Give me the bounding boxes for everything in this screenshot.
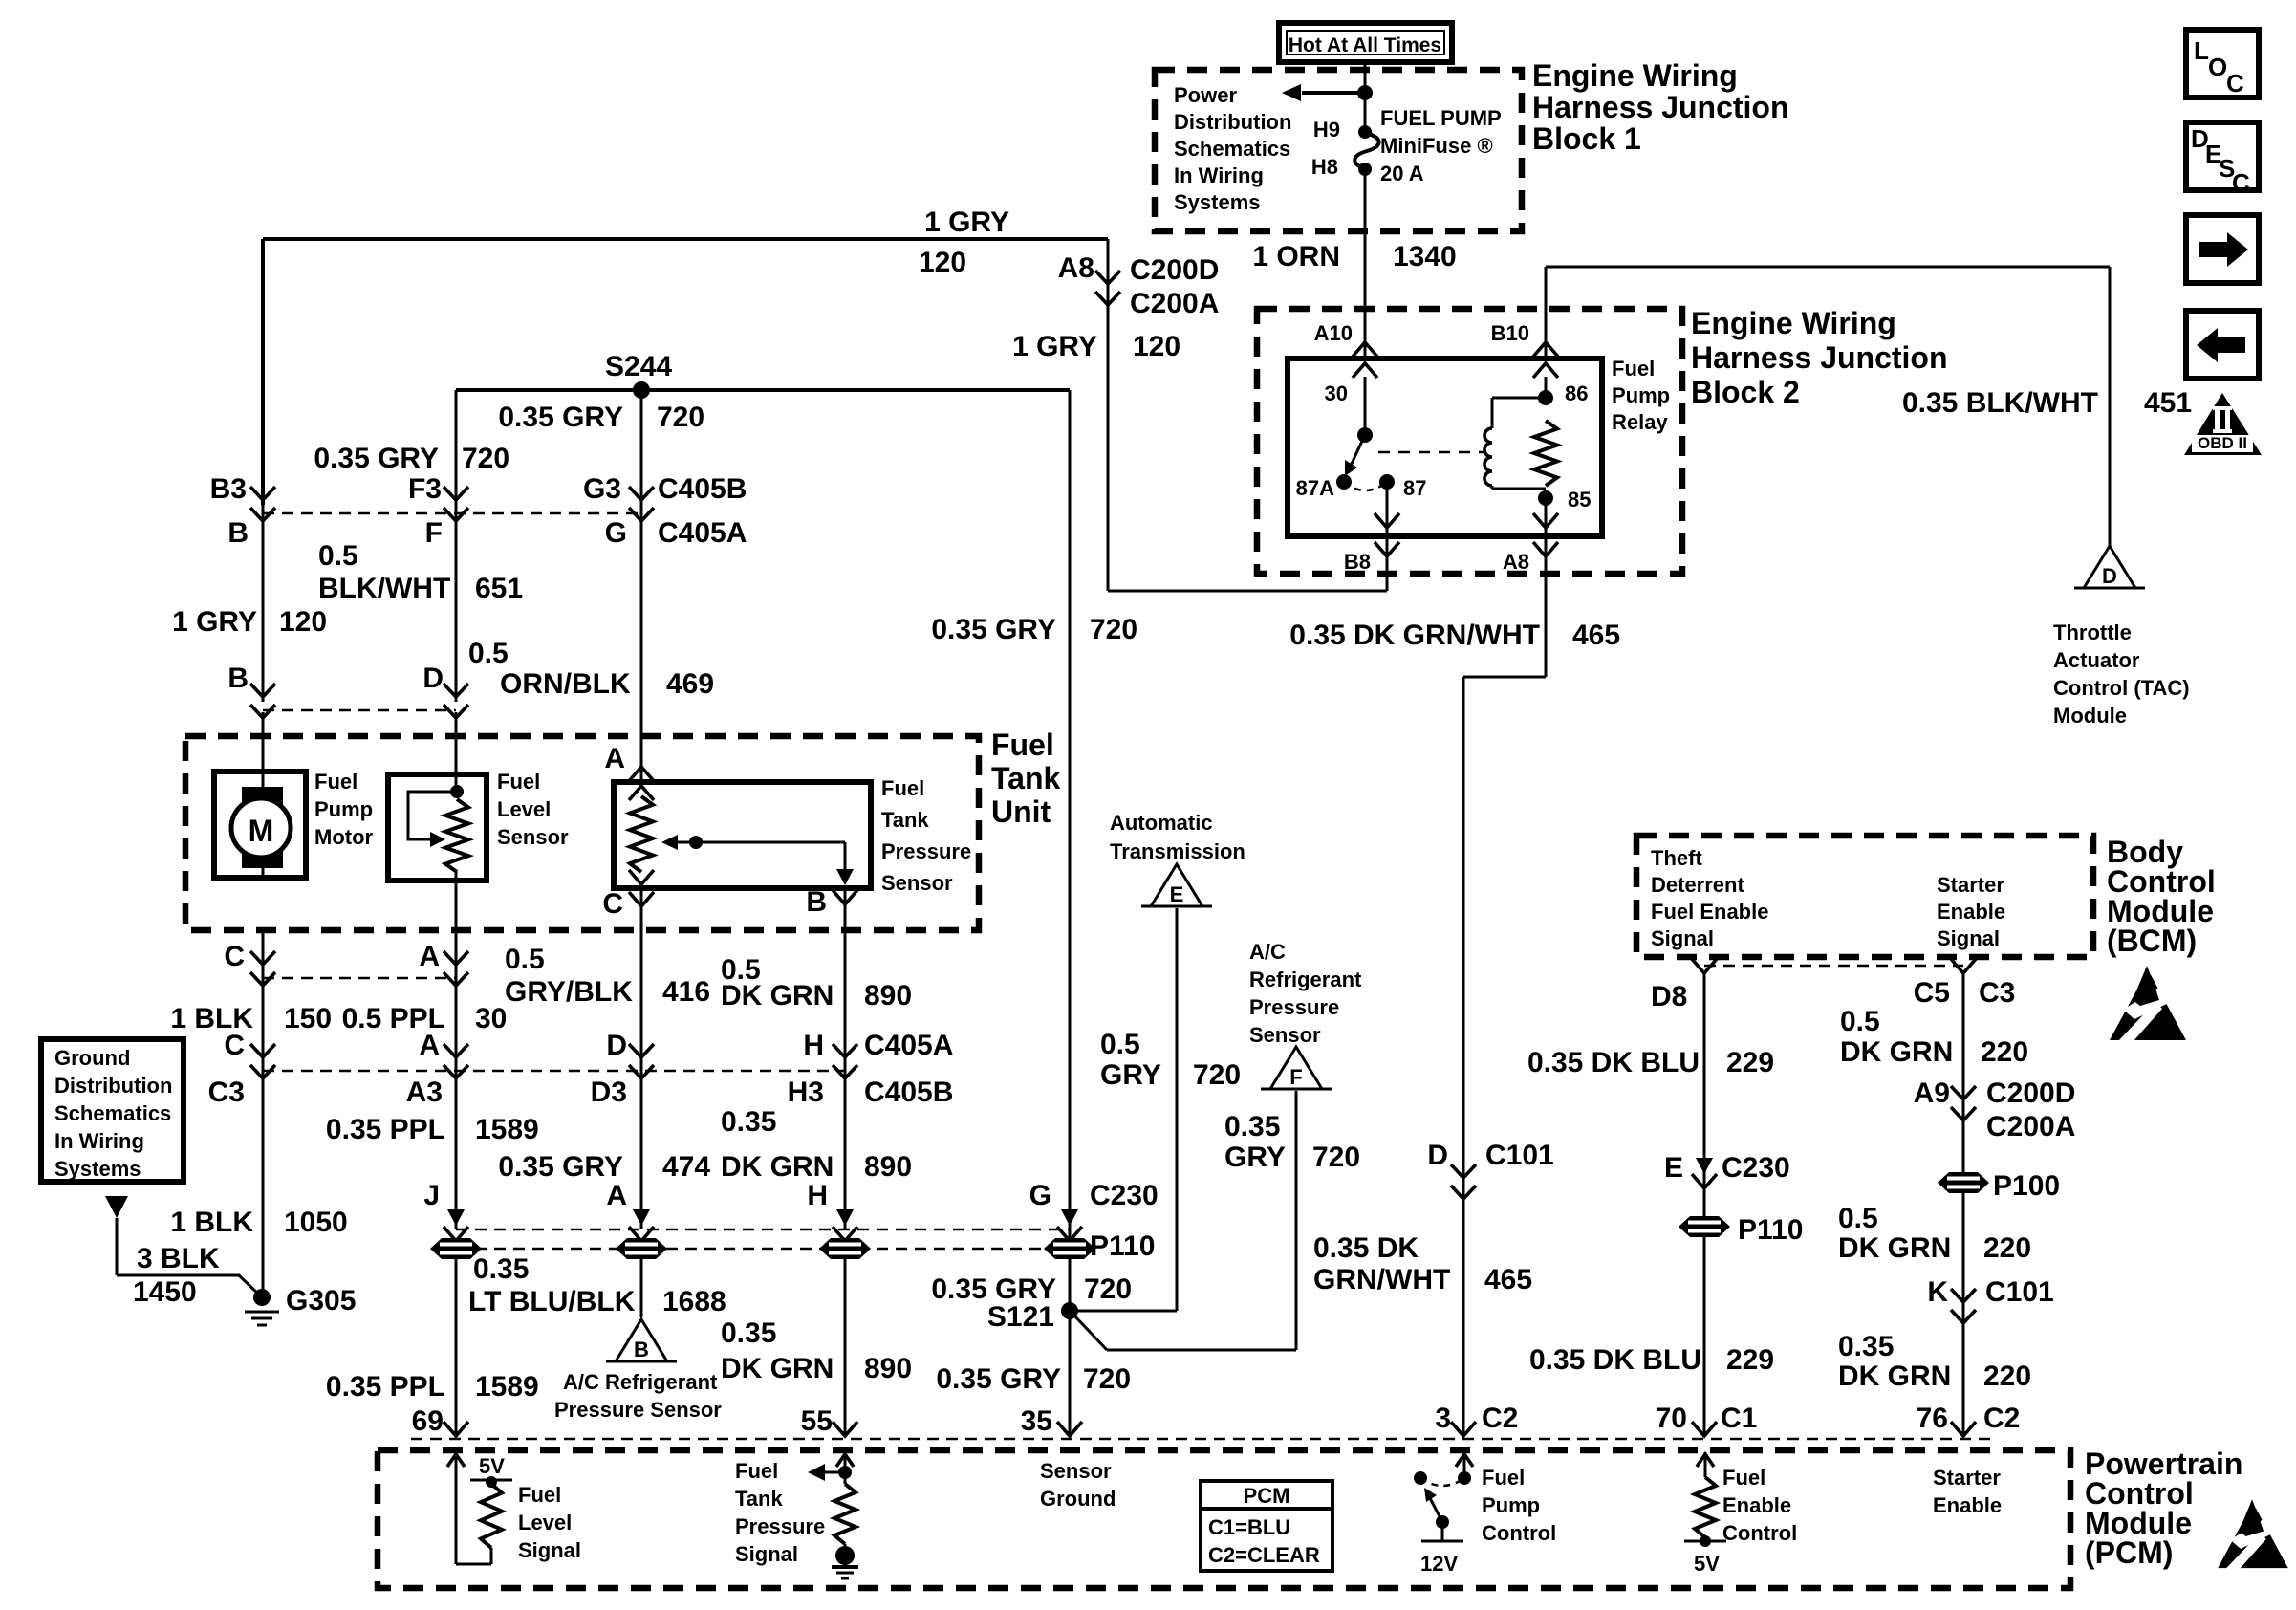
connector chevrons H row2 [833, 1044, 857, 1078]
PCM pressure input wire [844, 1452, 847, 1484]
svg-text:D3: D3 [591, 1077, 627, 1108]
svg-text:D8: D8 [1651, 981, 1687, 1012]
svg-text:A10: A10 [1314, 321, 1353, 345]
svg-text:B: B [227, 517, 249, 549]
svg-text:720: 720 [1083, 1363, 1131, 1395]
svg-text:Control: Control [1722, 1521, 1797, 1545]
svg-text:Schematics: Schematics [54, 1101, 171, 1125]
svg-text:0.5: 0.5 [1100, 1029, 1140, 1060]
svg-text:220: 220 [1983, 1360, 2031, 1392]
svg-text:1589: 1589 [475, 1371, 539, 1403]
svg-text:E: E [1170, 882, 1184, 906]
svg-text:Fuel: Fuel [735, 1459, 778, 1483]
svg-text:A8: A8 [1058, 252, 1094, 284]
svg-text:651: 651 [475, 573, 523, 604]
node - 85 junction [1538, 490, 1553, 506]
svg-text:220: 220 [1983, 1232, 2031, 1264]
svg-text:0.35 BLK/WHT: 0.35 BLK/WHT [1902, 387, 2098, 419]
wire - H column below tank [844, 930, 847, 1229]
wire - D into fuel tank unit [455, 712, 458, 779]
TAC triangle D [2084, 546, 2135, 588]
connector chevrons A row2 [444, 1044, 468, 1078]
svg-text:C2=CLEAR: C2=CLEAR [1208, 1543, 1320, 1567]
wire - 87 down to B8 [1386, 482, 1389, 516]
grommet P110 on pressure H wire [819, 1238, 871, 1259]
svg-text:C230: C230 [1722, 1152, 1790, 1184]
svg-text:P100: P100 [1993, 1170, 2060, 1202]
svg-text:Fuel: Fuel [314, 770, 357, 794]
pin B8 Y symbol [1375, 542, 1399, 556]
svg-text:F: F [425, 517, 443, 549]
wire - arrow to power distribution [1302, 91, 1365, 95]
pin B Y symbol [833, 890, 857, 904]
icon OBD II triangle [2184, 393, 2262, 455]
svg-text:Control: Control [1482, 1521, 1556, 1545]
pressure sensor wiper [671, 841, 845, 844]
PCM dashed box [378, 1450, 2070, 1588]
svg-text:H8: H8 [1311, 155, 1338, 179]
PCM 12V bar [1441, 1522, 1444, 1541]
svg-text:Sensor: Sensor [1249, 1023, 1321, 1047]
svg-text:G3: G3 [583, 473, 621, 505]
svg-text:0.5: 0.5 [1840, 1006, 1880, 1037]
wire - S244 horizontal [456, 388, 1070, 392]
connector chevrons D row2 [629, 1044, 654, 1078]
svg-text:Theft: Theft [1651, 846, 1702, 870]
svg-text:Refrigerant: Refrigerant [1249, 968, 1362, 991]
svg-text:35: 35 [1021, 1405, 1052, 1437]
svg-text:H: H [803, 1030, 824, 1061]
wire - relay 85/A8 output down [1545, 574, 1548, 677]
svg-text:C2: C2 [1983, 1403, 2020, 1434]
svg-text:(PCM): (PCM) [2085, 1535, 2173, 1570]
svg-text:S121: S121 [987, 1301, 1054, 1333]
svg-text:C2: C2 [1482, 1403, 1518, 1434]
wire - starter enable C5 to PCM 76 [1962, 973, 1965, 1434]
svg-text:Power: Power [1174, 83, 1237, 107]
svg-text:Pressure Sensor: Pressure Sensor [554, 1398, 722, 1422]
PCM fuel pump control wire [1463, 1452, 1466, 1478]
node - fuse terminal H9 [1358, 125, 1372, 139]
svg-text:C405A: C405A [658, 517, 747, 549]
wire - through motor [262, 776, 265, 792]
svg-text:0.35: 0.35 [721, 1106, 776, 1138]
svg-text:Engine Wiring: Engine Wiring [1691, 306, 1896, 340]
pin 69 Y symbol [444, 1422, 468, 1436]
svg-text:229: 229 [1726, 1047, 1774, 1078]
PCM pressure ground [844, 1544, 847, 1549]
svg-text:C: C [2232, 168, 2250, 197]
svg-text:G: G [605, 517, 627, 549]
svg-text:Unit: Unit [991, 794, 1051, 829]
arrow down inside relay (87) [1375, 513, 1399, 528]
connector chevrons C row1 [250, 951, 275, 986]
svg-text:H9: H9 [1313, 118, 1340, 141]
svg-text:Harness Junction: Harness Junction [1691, 340, 1948, 375]
svg-text:Starter: Starter [1933, 1466, 2001, 1490]
BCM dashed box [1636, 836, 2093, 957]
wire - 1 GRY 120 feed, horizontal from relay output to fuel pump column [263, 237, 1108, 241]
svg-text:1 BLK: 1 BLK [170, 1207, 253, 1238]
svg-text:Fuel: Fuel [1612, 357, 1655, 381]
svg-text:Starter: Starter [1937, 873, 2004, 897]
relay resistor [1534, 421, 1557, 486]
power feed box - Hot At All Times [1279, 23, 1452, 62]
icon DESC box [2186, 122, 2259, 190]
grommet P100 on C5 wire [1938, 1172, 1989, 1193]
svg-text:BLK/WHT: BLK/WHT [318, 573, 450, 604]
svg-text:H: H [807, 1180, 828, 1211]
connector C200D/C200A chevrons (A8) [1095, 271, 1120, 305]
svg-text:87: 87 [1403, 476, 1426, 500]
wire - S121 to automatic transmission E [1070, 1310, 1177, 1313]
svg-text:1 GRY: 1 GRY [924, 207, 1009, 238]
svg-text:55: 55 [801, 1405, 833, 1437]
pin D8 Y symbol [1692, 959, 1717, 973]
node - feed junction dot [1357, 85, 1373, 100]
wire - 85 down [1545, 498, 1548, 516]
svg-text:C: C [224, 941, 245, 972]
svg-text:Ground: Ground [54, 1046, 130, 1070]
svg-text:5V: 5V [479, 1454, 505, 1478]
svg-text:DK GRN: DK GRN [721, 980, 834, 1012]
node - level sensor top [450, 785, 464, 798]
svg-text:F3: F3 [408, 473, 442, 505]
svg-text:229: 229 [1726, 1344, 1774, 1376]
svg-text:Sensor: Sensor [1040, 1459, 1112, 1483]
svg-text:0.35 DK BLU: 0.35 DK BLU [1529, 1344, 1701, 1376]
wire - S244 left branch down (F3) [455, 390, 458, 505]
ESD symbol (PCM) [2218, 1497, 2288, 1569]
wire - S121 to A/C refrigerant F [1072, 1314, 1107, 1350]
svg-text:L: L [2194, 36, 2209, 65]
pressure sensor resistor [630, 796, 653, 872]
ESD symbol (BCM) [2110, 964, 2186, 1042]
svg-text:B8: B8 [1344, 550, 1371, 574]
svg-text:Pressure: Pressure [881, 839, 971, 863]
PCM fuel enable resistor [1695, 1477, 1716, 1537]
svg-text:Block 2: Block 2 [1691, 375, 1800, 409]
svg-text:A8: A8 [1503, 550, 1529, 574]
svg-text:Fuel: Fuel [497, 770, 540, 794]
svg-text:0.35: 0.35 [1224, 1111, 1280, 1142]
svg-text:70: 70 [1656, 1403, 1687, 1434]
wire - left vertical feed down to B3 [261, 239, 265, 505]
connector line C405A (row2) [263, 1070, 845, 1073]
svg-text:120: 120 [279, 606, 327, 638]
PCM fuel enable wire [1704, 1452, 1707, 1477]
pin 86 entry chevron [1533, 363, 1558, 378]
svg-text:D: D [1427, 1140, 1448, 1171]
PCM fuel level pullup resistor [481, 1484, 502, 1548]
svg-text:0.35 GRY: 0.35 GRY [314, 443, 439, 474]
svg-text:Deterrent: Deterrent [1651, 873, 1744, 897]
svg-text:465: 465 [1572, 620, 1620, 651]
svg-text:H3: H3 [788, 1077, 824, 1108]
wire - level sensor out [455, 872, 458, 930]
svg-text:30: 30 [475, 1003, 507, 1034]
svg-text:Level: Level [497, 797, 551, 821]
ground distribution arrow [105, 1196, 128, 1218]
fuel pump motor circle M [231, 798, 291, 858]
wire - relay 87/B8 down and left to A8 connector column [1386, 574, 1389, 591]
pin C5/C3 Y symbol [1951, 959, 1976, 973]
svg-text:0.35 PPL: 0.35 PPL [326, 1114, 445, 1145]
node - switch pivot [1357, 427, 1373, 443]
svg-text:Throttle: Throttle [2053, 620, 2132, 644]
PCM 5V bar (fuel enable) [1704, 1537, 1707, 1541]
svg-text:87A: 87A [1296, 476, 1334, 500]
svg-text:1340: 1340 [1393, 241, 1457, 272]
svg-text:MiniFuse ®: MiniFuse ® [1380, 134, 1493, 158]
connector line (grommet row) [456, 1229, 1070, 1231]
wire - F column down [455, 505, 458, 702]
A/C refrigerant pressure sensor triangle F [1270, 1047, 1322, 1089]
svg-text:Fuel: Fuel [991, 728, 1054, 762]
svg-text:In Wiring: In Wiring [54, 1129, 144, 1153]
svg-text:In Wiring: In Wiring [1174, 163, 1264, 187]
PCM connector dashed line [411, 1438, 1998, 1441]
node - fuse terminal H8 [1358, 163, 1372, 176]
svg-text:0.35: 0.35 [721, 1317, 776, 1349]
svg-text:B: B [634, 1338, 649, 1361]
svg-text:A/C Refrigerant: A/C Refrigerant [563, 1370, 718, 1394]
svg-text:3: 3 [1435, 1403, 1451, 1434]
dashed link switch to coil [1378, 451, 1484, 454]
svg-text:120: 120 [919, 247, 966, 278]
svg-text:Hot At All Times: Hot At All Times [1289, 34, 1441, 56]
svg-text:0.35: 0.35 [473, 1253, 529, 1285]
svg-text:Systems: Systems [1174, 190, 1261, 214]
svg-text:720: 720 [1084, 1273, 1132, 1305]
svg-text:B3: B3 [210, 473, 247, 505]
relay box - fuel pump relay [1288, 359, 1602, 536]
wire - D column below tank [640, 930, 643, 1229]
node - ground G305 [253, 1289, 271, 1306]
wire - into level sensor [455, 779, 458, 792]
svg-text:Automatic: Automatic [1110, 811, 1213, 835]
svg-text:Enable: Enable [1722, 1493, 1791, 1517]
wire - B column down [262, 505, 265, 702]
svg-text:Enable: Enable [1933, 1493, 2002, 1517]
svg-text:76: 76 [1917, 1403, 1948, 1434]
wire - pin 30 to switch pivot [1364, 377, 1367, 435]
svg-text:720: 720 [1090, 614, 1137, 645]
svg-text:DK GRN: DK GRN [1838, 1232, 1951, 1264]
svg-text:720: 720 [1193, 1059, 1241, 1091]
relay coil [1491, 398, 1494, 428]
svg-text:A: A [606, 1180, 627, 1211]
svg-text:OBD II: OBD II [2198, 434, 2247, 452]
node - splice S121 [1061, 1302, 1078, 1319]
svg-text:C: C [602, 888, 623, 920]
grommet P110 on fuel level wire [430, 1238, 482, 1259]
svg-text:474: 474 [662, 1151, 710, 1183]
svg-text:Distribution: Distribution [1174, 110, 1291, 134]
wire - C column below tank [262, 930, 265, 1297]
pressure sensor output drop [844, 842, 847, 874]
wire - fuel level signal to PCM [455, 1258, 458, 1434]
svg-text:C200D: C200D [1986, 1077, 2075, 1109]
svg-text:Sensor: Sensor [881, 871, 953, 895]
fuel pump motor brushes [242, 787, 283, 806]
svg-text:1 GRY: 1 GRY [172, 606, 257, 638]
fuel pump motor M1 - box [214, 772, 306, 878]
svg-text:465: 465 [1484, 1264, 1532, 1295]
svg-text:C1=BLU: C1=BLU [1208, 1515, 1290, 1539]
wire - B into fuel tank unit [262, 712, 265, 776]
svg-text:(BCM): (BCM) [2107, 924, 2197, 958]
svg-text:150: 150 [284, 1003, 332, 1034]
svg-text:C200A: C200A [1986, 1111, 2075, 1142]
svg-text:A: A [604, 743, 625, 774]
svg-text:GRN/WHT: GRN/WHT [1313, 1264, 1450, 1295]
svg-text:Motor: Motor [314, 825, 374, 849]
switch arm with arrow (relay) [1351, 435, 1365, 466]
svg-text:A/C: A/C [1249, 940, 1286, 964]
svg-text:451: 451 [2144, 387, 2192, 419]
svg-text:Pressure: Pressure [1249, 995, 1339, 1019]
connector chevrons K C101 [1951, 1289, 1976, 1323]
svg-text:Fuel: Fuel [1482, 1466, 1525, 1490]
svg-text:LT BLU/BLK: LT BLU/BLK [468, 1286, 636, 1317]
arrow down inside relay (85) [1533, 513, 1558, 528]
pin 76 Y symbol [1951, 1422, 1976, 1436]
svg-text:Pressure: Pressure [735, 1514, 825, 1538]
wire - S244 right branch down (main GRY 720) [1069, 390, 1072, 1311]
svg-text:C101: C101 [1985, 1276, 2054, 1308]
grommet P110 on pressure C wire [616, 1238, 667, 1259]
svg-text:0.5: 0.5 [318, 540, 358, 572]
svg-text:Signal: Signal [1651, 926, 1714, 950]
svg-text:720: 720 [1312, 1142, 1360, 1173]
svg-text:86: 86 [1565, 381, 1588, 405]
svg-text:0.5: 0.5 [468, 638, 509, 669]
node - contact 87 [1379, 474, 1395, 490]
svg-text:DK GRN: DK GRN [721, 1353, 834, 1384]
svg-text:Tank: Tank [991, 761, 1061, 795]
svg-text:C200D: C200D [1130, 254, 1219, 286]
svg-text:0.35 GRY: 0.35 GRY [498, 1151, 623, 1183]
PCM 5V bar (fuel level) [470, 1479, 512, 1482]
svg-text:120: 120 [1133, 331, 1180, 362]
connector line (C-A row1) [263, 977, 456, 980]
svg-text:Pump: Pump [1612, 383, 1670, 407]
wire - A8/C200 column down [1107, 239, 1110, 591]
node - fuel pump control contact left [1414, 1471, 1427, 1485]
svg-text:0.5: 0.5 [505, 944, 545, 975]
svg-text:O: O [2208, 53, 2227, 81]
wire - theft deterrent D8 to PCM 70 [1703, 973, 1706, 1434]
svg-text:B: B [227, 663, 249, 694]
svg-text:C101: C101 [1485, 1140, 1554, 1171]
svg-text:Signal: Signal [1937, 926, 2000, 950]
svg-text:1 ORN: 1 ORN [1252, 241, 1340, 272]
svg-text:0.35 DK: 0.35 DK [1313, 1232, 1419, 1264]
fuel tank unit dashed box [185, 736, 979, 930]
connector chevrons A row1 [444, 951, 468, 986]
svg-text:720: 720 [462, 443, 509, 474]
svg-text:Module: Module [2053, 704, 2127, 728]
grommet P110 on sensor ground wire [1044, 1238, 1095, 1259]
wire - fuse feed from Hot At All Times [1364, 60, 1367, 134]
connector chevrons B (fuel tank) [250, 684, 275, 718]
connector line C405 (top row) [263, 512, 641, 515]
svg-text:Pump: Pump [1482, 1493, 1540, 1517]
wire - B10 up and over to TAC [1545, 267, 1548, 359]
svg-text:D: D [606, 1030, 627, 1061]
wire - sensor ground to PCM [1069, 1258, 1072, 1434]
svg-text:D: D [422, 663, 444, 694]
relay coil branch top [1492, 397, 1546, 400]
pin 55 Y symbol [833, 1422, 857, 1436]
node - splice S244 [633, 381, 650, 399]
svg-text:A9: A9 [1914, 1077, 1950, 1109]
svg-text:Harness Junction: Harness Junction [1532, 90, 1789, 124]
svg-text:Block 1: Block 1 [1532, 121, 1641, 156]
PCM pressure pulldown resistor [834, 1484, 856, 1544]
svg-text:B10: B10 [1491, 321, 1529, 345]
svg-text:890: 890 [864, 1151, 912, 1183]
svg-text:0.35: 0.35 [1838, 1331, 1894, 1362]
wire - 86 to coil junction [1545, 377, 1548, 398]
arrow G into grommet row [1061, 1209, 1078, 1226]
svg-text:G305: G305 [286, 1285, 356, 1316]
svg-text:Ground: Ground [1040, 1487, 1116, 1511]
level sensor resistor [445, 799, 468, 872]
svg-text:Fuel Enable: Fuel Enable [1651, 900, 1768, 924]
svg-text:E: E [1664, 1152, 1683, 1184]
arrow A into grommet row [633, 1209, 650, 1226]
svg-text:Signal: Signal [518, 1538, 581, 1562]
svg-text:12V: 12V [1420, 1552, 1458, 1576]
svg-text:G: G [1029, 1180, 1051, 1211]
dashed arc 87A-87 [1344, 482, 1387, 490]
svg-text:C: C [2226, 69, 2244, 98]
svg-text:3 BLK: 3 BLK [137, 1243, 220, 1274]
svg-text:890: 890 [864, 980, 912, 1012]
fuel level sensor - box [388, 774, 487, 881]
svg-text:0.5: 0.5 [1838, 1203, 1878, 1234]
PCM legend box [1201, 1481, 1332, 1571]
arrow J into grommet row [447, 1209, 465, 1226]
svg-text:C3: C3 [1979, 977, 2015, 1009]
svg-text:DK GRN: DK GRN [721, 1151, 834, 1183]
svg-text:Enable: Enable [1937, 900, 2005, 924]
fuel tank pressure sensor - box [614, 782, 871, 888]
svg-text:720: 720 [657, 402, 704, 433]
svg-text:Fuel: Fuel [881, 776, 924, 800]
PCM fuel level input wire [455, 1452, 458, 1564]
svg-text:FUEL PUMP: FUEL PUMP [1380, 106, 1502, 130]
svg-text:5V: 5V [1694, 1552, 1720, 1576]
svg-text:Sensor: Sensor [497, 825, 569, 849]
svg-text:1 GRY: 1 GRY [1012, 331, 1097, 362]
svg-text:0.35 DK GRN/WHT: 0.35 DK GRN/WHT [1289, 620, 1540, 651]
svg-text:M: M [249, 814, 274, 848]
icon LOC box [2186, 30, 2259, 98]
svg-text:Fuel: Fuel [1722, 1466, 1765, 1490]
connector chevrons G3-G [629, 487, 654, 521]
svg-text:DK GRN: DK GRN [1838, 1360, 1951, 1392]
BCM connector dashed line [1704, 965, 1963, 968]
svg-text:GRY: GRY [1100, 1059, 1161, 1091]
pin 30 entry chevron [1353, 363, 1377, 378]
icon back arrow box [2186, 311, 2259, 379]
pin 35 Y symbol [1057, 1422, 1082, 1436]
svg-text:Fuel: Fuel [518, 1483, 561, 1507]
svg-text:DK GRN: DK GRN [1840, 1036, 1953, 1068]
